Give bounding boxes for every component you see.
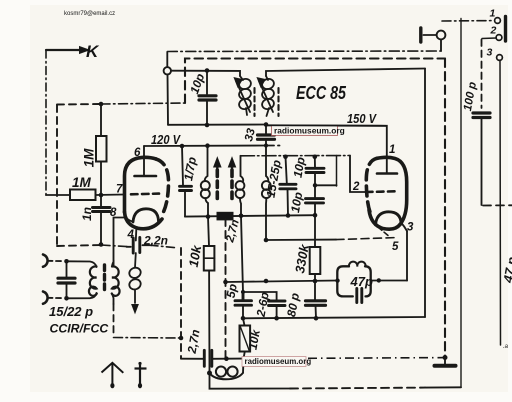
- svg-text:120 V: 120 V: [151, 132, 181, 147]
- svg-text:1M: 1M: [72, 175, 92, 190]
- svg-text:1: 1: [490, 8, 496, 20]
- wire pin8: [114, 218, 134, 267]
- tank circuit box 47p: [337, 266, 370, 296]
- wire y125 line: [168, 124, 266, 126]
- capacitor C 1n: [93, 208, 111, 212]
- wire y156 grid2 line: [241, 155, 351, 157]
- svg-text:radiomuseum.org: radiomuseum.org: [274, 125, 345, 135]
- svg-text:2: 2: [352, 181, 360, 193]
- svg-text:3: 3: [487, 47, 493, 59]
- tube V2 envelope: [366, 158, 377, 212]
- wire bottom bus: [210, 373, 291, 389]
- wire pin5 dash: [266, 239, 336, 241]
- antenna symbol: [102, 363, 124, 384]
- wire inner box right: [424, 69, 426, 318]
- tube V2 grid: [366, 190, 397, 193]
- tube V1 envelope: [125, 157, 157, 212]
- wire dash-dot top right: [442, 20, 493, 22]
- tube V1 pin6 anode: [143, 146, 145, 176]
- wire y70.5 to coils: [171, 71, 240, 76]
- wire dash-dot y358 right: [308, 357, 445, 360]
- resistor R 1M horizontal: [70, 190, 96, 201]
- antenna input arc upper: [43, 255, 48, 267]
- wire inner box top: [266, 69, 425, 77]
- svg-text:47p: 47p: [350, 274, 373, 289]
- wire dashed sec bottom: [113, 304, 115, 337]
- capacitor C ant: [66, 261, 68, 276]
- watermark radiomuseum 1: [272, 125, 345, 135]
- capacitor C 2.7n lower: [204, 350, 212, 366]
- resistor R 1M vertical: [100, 104, 102, 136]
- chain x242: [241, 216, 243, 292]
- transformer T ant core: [103, 265, 106, 293]
- tube V2 anode: [377, 172, 397, 175]
- svg-text:15/22 p: 15/22 p: [49, 304, 93, 319]
- wire pin2 dashed: [482, 37, 496, 40]
- resistor R 10k: [208, 217, 209, 246]
- wire dash-dot left vertical: [45, 50, 47, 195]
- svg-text:2: 2: [490, 25, 497, 37]
- wire 120V line: [144, 145, 266, 148]
- wire pin3 right vertical: [499, 61, 502, 345]
- svg-text:1n: 1n: [80, 207, 94, 221]
- svg-text:CCIR/FCC: CCIR/FCC: [50, 322, 110, 336]
- wire jog to grid2 line: [315, 184, 337, 186]
- wire pin4 stem: [135, 230, 138, 241]
- watermark radiomuseum 2: [242, 357, 311, 367]
- wire y216 line: [185, 215, 315, 216]
- inductor L tuning B: [261, 76, 276, 116]
- wire grid bus to tube1: [46, 194, 70, 196]
- capacitor C 10p input: [206, 71, 208, 95]
- node K arrow: [46, 49, 82, 51]
- resistor R 330k: [314, 215, 316, 247]
- inductor L tuning A: [238, 76, 253, 115]
- connector pins 1 2 3: [495, 18, 501, 24]
- wire bus y281: [226, 281, 338, 283]
- capacitor C 10p b: [306, 199, 324, 203]
- svg-text:ECC 85: ECC 85: [296, 82, 347, 103]
- svg-text:3: 3: [407, 222, 414, 234]
- wire dashed x181: [180, 248, 182, 359]
- capacitor C 1/7p: [182, 146, 183, 185]
- wire dash-dot link top: [167, 50, 441, 53]
- svg-text:kosmr79@email.cz: kosmr79@email.cz: [64, 11, 115, 17]
- wire dashed top y104: [57, 103, 101, 106]
- big dashed box top: [185, 59, 445, 104]
- svg-text:8: 8: [110, 207, 117, 219]
- resistor R 10k hatched: [243, 318, 245, 325]
- ground chassis right: [444, 358, 446, 365]
- svg-text:6: 6: [134, 147, 141, 159]
- capacitor C 33: [265, 125, 267, 134]
- terminal T1 left: [164, 67, 171, 74]
- svg-text:150 V: 150 V: [347, 111, 377, 126]
- wire 150V line overlay: [266, 124, 387, 127]
- svg-text:1M: 1M: [82, 148, 97, 168]
- capacitor C 2.2n: [133, 238, 140, 254]
- svg-text:.a: .a: [503, 344, 509, 350]
- capacitor C 2.7n black: [217, 212, 233, 220]
- capacitor C 10p a: [314, 157, 316, 167]
- transformer T ant secondary: [112, 266, 120, 295]
- wire pin3: [401, 223, 407, 232]
- IF transformer sec loops: [241, 156, 244, 181]
- antenna input arc lower: [43, 292, 48, 304]
- svg-text:1: 1: [389, 144, 395, 156]
- svg-text:5p: 5p: [224, 283, 240, 299]
- wire dashed bottom of box y245: [57, 245, 101, 246]
- svg-text:2,2n: 2,2n: [143, 234, 168, 248]
- wire dashed x225: [225, 219, 227, 358]
- inductor L osc grid coil: [266, 146, 268, 182]
- junction dots: [99, 102, 104, 107]
- capacitor C 15-25p trimmer: [286, 157, 287, 183]
- tube V1 cathode: [133, 209, 159, 222]
- tube V2 cathode: [376, 212, 402, 225]
- IF transformer primary loops: [205, 146, 208, 181]
- svg-text:K: K: [86, 42, 100, 61]
- inductor L series bottom: [216, 367, 226, 377]
- wire dashed vertical x57: [56, 105, 58, 246]
- big dashed box right: [444, 59, 446, 358]
- svg-text:5: 5: [392, 241, 399, 253]
- wire inner box bottom y318: [243, 317, 425, 318]
- transformer T ant primary: [67, 261, 97, 267]
- tube V1 grid: [131, 192, 159, 195]
- svg-text:7: 7: [116, 184, 123, 196]
- svg-text:radiomuseum.org: radiomuseum.org: [245, 357, 312, 366]
- terminal T2 top: [437, 31, 446, 40]
- earth symbol: [135, 362, 147, 384]
- capacitor C 80p: [314, 281, 316, 300]
- capacitor C 100p right: [473, 113, 490, 118]
- inductor L choke pin4: [128, 253, 143, 303]
- svg-text:4: 4: [127, 229, 135, 241]
- wire tank to pin3: [371, 280, 407, 282]
- capacitor C 2-6p trimmer: [243, 292, 277, 300]
- tube V2 pin1 stem: [266, 125, 387, 173]
- wire long vertical x461: [460, 19, 462, 388]
- capacitor C 5p: [235, 292, 252, 305]
- IF transformer core bars with arrows: [216, 170, 220, 203]
